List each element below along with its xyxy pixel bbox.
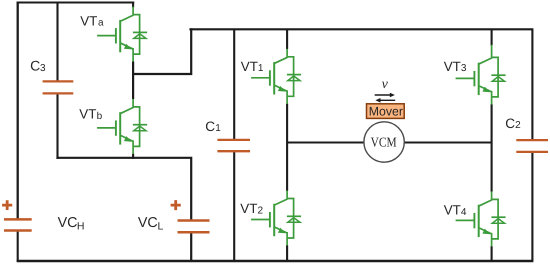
wire C2 top leg: [531, 29, 533, 141]
label VT2: [240, 201, 263, 216]
wire midpoint to top bus: [133, 28, 191, 74]
svg-text:VT: VT: [240, 201, 257, 216]
label C2: [505, 116, 521, 131]
wire crossbar left: [287, 141, 364, 143]
wire VT2 bottom stub: [286, 245, 288, 261]
arrow left: [375, 98, 395, 103]
label C1: [205, 119, 221, 134]
label VCH: [58, 215, 85, 233]
svg-text:C: C: [505, 116, 515, 131]
svg-text:4: 4: [461, 207, 467, 218]
wire VTb bottom stub: [132, 154, 134, 159]
svg-text:VT: VT: [444, 59, 461, 74]
svg-text:VT: VT: [444, 203, 461, 218]
label VT1: [241, 59, 264, 74]
wire VT1 top stub: [286, 29, 288, 49]
svg-text:VC: VC: [138, 215, 158, 231]
wire VT1-VT2 junction: [286, 104, 288, 191]
svg-text:VC: VC: [58, 215, 78, 231]
svg-text:L: L: [158, 221, 164, 233]
svg-text:VT: VT: [80, 14, 97, 29]
svg-text:2: 2: [258, 205, 264, 216]
svg-text:1: 1: [215, 123, 221, 134]
svg-text:2: 2: [515, 120, 521, 131]
svg-text:3: 3: [40, 63, 46, 74]
wire low mid bus: [56, 158, 191, 261]
wire C1 top leg: [233, 29, 235, 141]
wire VT4 bottom stub: [491, 246, 493, 261]
label VT3: [444, 59, 467, 74]
transistor VT3: [456, 49, 506, 104]
source VCH plus: [2, 200, 12, 210]
transistor VT1: [251, 49, 301, 104]
wire VTa top stub: [132, 2, 134, 8]
svg-text:Mover: Mover: [369, 104, 403, 118]
transistor VT4: [456, 191, 506, 246]
wire bottom bus: [17, 260, 534, 263]
wire C2 bottom leg: [531, 151, 533, 261]
capacitor C3: [43, 81, 74, 93]
transistor VT2: [251, 191, 301, 246]
source VCL plus: [171, 200, 181, 210]
svg-text:C: C: [30, 57, 40, 73]
svg-text:v: v: [382, 77, 389, 92]
svg-text:a: a: [98, 18, 104, 29]
wire top bus: [189, 28, 533, 30]
wire top-left bus: [17, 2, 135, 4]
wire C1 bottom leg: [233, 151, 235, 262]
label VT4: [444, 203, 467, 218]
wire left vertical: [17, 2, 19, 220]
capacitor C1: [217, 140, 250, 151]
transistor VTa: [97, 7, 147, 62]
source VCL plates: [178, 221, 210, 233]
wire VT3 top stub: [491, 29, 493, 45]
wire crossbar right: [405, 141, 492, 143]
wire VT3-VT4 junction: [491, 104, 493, 191]
capacitor C2: [516, 140, 548, 152]
svg-text:VT: VT: [241, 59, 258, 74]
svg-text:1: 1: [258, 63, 264, 74]
label VCL: [138, 215, 164, 233]
wire C3 top leg: [56, 3, 58, 82]
label VTa: [80, 14, 104, 29]
svg-text:H: H: [77, 220, 85, 232]
source VCH plates: [4, 219, 32, 230]
svg-text:b: b: [97, 111, 103, 122]
label C3: [30, 57, 46, 74]
transistor VTb: [97, 99, 147, 154]
wire VTa-VTb junction: [132, 61, 134, 99]
svg-text:C: C: [205, 119, 215, 134]
svg-text:3: 3: [461, 63, 467, 74]
wire VCH bottom leg: [17, 230, 19, 261]
svg-text:VCM: VCM: [371, 135, 397, 150]
wire C3 bottom leg: [56, 93, 58, 159]
svg-text:VT: VT: [79, 107, 96, 122]
VCM motor circle: [364, 122, 404, 162]
Mover block: [367, 104, 405, 119]
label VTb: [79, 107, 102, 122]
arrow right: [375, 93, 395, 98]
